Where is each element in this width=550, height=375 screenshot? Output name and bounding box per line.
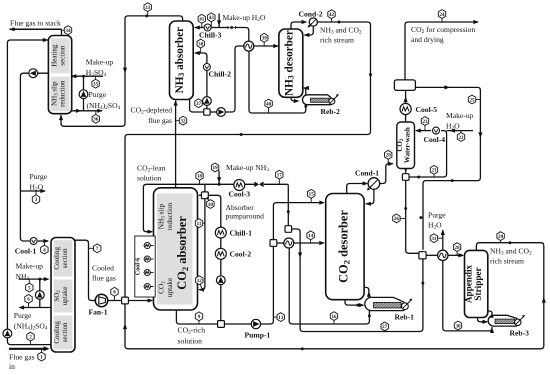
wire drum side stream	[415, 87, 480, 249]
svg-text:32: 32	[180, 119, 186, 125]
wire desorber overhead	[291, 22, 305, 29]
pump Pump-1	[251, 319, 260, 328]
svg-text:rich stream: rich stream	[490, 256, 524, 265]
wire HX3 bottom to Reb-3	[443, 261, 492, 331]
svg-text:reduction: reduction	[59, 80, 67, 107]
svg-text:36: 36	[93, 117, 99, 123]
wire desorber overhead long line	[125, 22, 371, 297]
svg-text:section: section	[59, 45, 67, 65]
wire H2SO4 pump riser	[83, 76, 85, 111]
wire pumparound line y=112	[210, 111, 216, 113]
svg-text:Cooling: Cooling	[53, 321, 61, 344]
chiller Chill-3	[204, 24, 211, 31]
reboiler Reb-2	[303, 95, 332, 105]
arrowhead H2SO4 into column	[71, 74, 77, 78]
svg-text:40: 40	[266, 101, 272, 107]
wire cool2-pump	[220, 259, 222, 276]
wire purge ammonium sulfate bottom	[20, 307, 52, 309]
arrowhead flue gas into column	[44, 346, 50, 351]
wire square to HX3	[426, 254, 437, 256]
node stream 12	[199, 280, 201, 288]
svg-text:uptake: uptake	[165, 278, 174, 297]
svg-text:16: 16	[331, 314, 337, 320]
svg-text:Chill-2: Chill-2	[209, 70, 232, 79]
svg-text:28: 28	[455, 245, 461, 251]
svg-text:Fan-1: Fan-1	[89, 308, 108, 317]
arrowhead down leg into absorber	[198, 288, 204, 292]
node stream 5	[28, 279, 30, 288]
pump H2SO4 recirculation	[79, 90, 88, 99]
wire chill3 line segment2	[212, 27, 228, 29]
exchanger lean/rich HX CO2 loop	[284, 238, 294, 248]
svg-text:9: 9	[198, 314, 201, 320]
wire make-up NH3 mid drop	[218, 171, 220, 184]
svg-text:Reb-1: Reb-1	[395, 313, 415, 322]
svg-text:19: 19	[213, 165, 219, 171]
arrowhead up into Reb-3	[490, 327, 494, 333]
node stream 17	[278, 175, 280, 185]
svg-text:14: 14	[308, 233, 314, 239]
wire Cond-1 vapor to water wash	[380, 164, 393, 184]
svg-text:30: 30	[455, 323, 461, 329]
svg-text:27: 27	[382, 324, 388, 330]
exchanger Cool-6 unit 4	[144, 283, 150, 289]
exchanger Cool-6 unit 3	[144, 269, 150, 275]
chiller Chill-1	[215, 227, 226, 238]
svg-text:section: section	[61, 322, 69, 342]
svg-text:13: 13	[278, 315, 284, 321]
node stream 15	[310, 194, 312, 203]
svg-text:Cool-1: Cool-1	[15, 247, 37, 256]
svg-text:Cond-2: Cond-2	[299, 9, 323, 18]
wire lean rail to bottom rail	[125, 246, 544, 349]
svg-text:33: 33	[145, 5, 151, 11]
svg-text:CO2 desorber: CO2 desorber	[336, 210, 351, 283]
column appendix stripper	[465, 250, 488, 317]
wire square to absorber	[128, 300, 152, 302]
svg-text:NH3 desorber: NH3 desorber	[284, 30, 296, 96]
wire HX1 top to chill3 line	[236, 28, 249, 42]
svg-text:Chill-1: Chill-1	[230, 228, 253, 237]
wire HX2 top riser	[287, 187, 289, 225]
node stream 4	[43, 241, 45, 250]
arrowhead Reb-3 vapor	[490, 313, 494, 318]
wire CO2-depleted flue gas	[175, 101, 177, 188]
svg-text:Make-up H2O: Make-up H2O	[223, 13, 266, 23]
wire stripper bottoms to Reb-3	[478, 318, 488, 322]
arrowhead down on rail x=125	[123, 68, 127, 74]
svg-text:43: 43	[209, 15, 215, 21]
wire stripper overhead	[476, 243, 543, 251]
wire make-up H2O right feed	[447, 130, 473, 132]
arrowhead stack left	[9, 27, 15, 31]
wire desorber overhead to Cond-1	[347, 184, 367, 194]
arrowhead make-up H2O down	[217, 20, 221, 26]
arrowhead bypass into desorber	[319, 201, 325, 205]
junction stripper bottoms	[482, 320, 485, 323]
svg-text:Make-up: Make-up	[16, 261, 44, 270]
wire Cool-1 to cooling column	[38, 240, 48, 242]
wire fan to square	[108, 300, 122, 302]
valve chill3 line b	[232, 26, 236, 29]
arrowhead fan gas into absorber	[148, 298, 154, 302]
wire cool-6 stub 3	[144, 272, 154, 274]
wire chill1-cool2	[220, 238, 222, 249]
junction square fan line	[122, 297, 129, 304]
node stream 41	[201, 19, 203, 28]
svg-text:in: in	[9, 362, 15, 370]
svg-text:(NH4)2SO4: (NH4)2SO4	[14, 322, 48, 332]
junction before stripper	[459, 254, 462, 257]
wire cool-6 stub 1	[144, 245, 154, 247]
node stream 43	[210, 17, 212, 27]
svg-text:39: 39	[262, 36, 268, 42]
pump NH3 absorber bottoms	[217, 108, 226, 117]
column NH3 absorber	[170, 21, 194, 100]
wire HX3 to stripper	[448, 254, 463, 256]
junction dot on long line	[240, 133, 243, 136]
wire pump to HX1 riser	[225, 46, 243, 112]
node stream 3	[35, 191, 37, 199]
arrowhead into Reb-1	[359, 303, 365, 307]
svg-text:Flue gas to stack: Flue gas to stack	[10, 19, 61, 28]
arrowhead on recirc mid	[450, 129, 456, 133]
condenser Cond-2	[309, 18, 317, 26]
wire Reb-3 vapor return	[487, 311, 493, 316]
node stream 23	[424, 121, 426, 131]
svg-text:42: 42	[329, 12, 335, 18]
node stream 27	[384, 326, 386, 331]
svg-text:NH3 and CO2: NH3 and CO2	[320, 26, 362, 36]
node stream 39	[263, 38, 265, 46]
cooler Cool-1	[30, 238, 37, 245]
node stream 1	[41, 350, 43, 357]
junction on HX2 riser	[287, 210, 290, 213]
node stream 2	[30, 337, 32, 345]
arrowhead lean into absorber left	[148, 230, 154, 234]
wire chill3 line segment valve	[230, 27, 233, 29]
fan Fan-1	[95, 294, 107, 306]
wire wash bottoms to appendix	[406, 180, 421, 254]
wire HX2 right to desorber	[294, 242, 324, 244]
wire Cond-1 reflux	[366, 189, 374, 203]
wire pump1 discharge riser	[261, 246, 274, 324]
wire pump-square	[220, 285, 222, 321]
svg-text:NH3 and CO2: NH3 and CO2	[490, 246, 532, 256]
svg-text:Heating: Heating	[50, 44, 58, 67]
svg-text:3: 3	[35, 197, 38, 203]
arrowhead make-up NH3 into column	[44, 277, 50, 281]
arrowhead reflux into desorber	[304, 33, 310, 37]
pump bottom recycle	[3, 329, 12, 338]
svg-text:Make-up: Make-up	[86, 57, 114, 66]
svg-text:Appendix: Appendix	[463, 264, 473, 303]
node stream 16	[333, 316, 335, 324]
node stream 40	[268, 104, 270, 114]
junction square appendix feed	[419, 252, 426, 259]
wire flue gas in	[9, 348, 48, 350]
wire make-up NH3 feed	[19, 278, 49, 280]
arrowhead into Reb-2	[294, 99, 300, 103]
junction on y=180.6 line	[451, 179, 454, 182]
valve chill3 line a	[227, 26, 231, 29]
wire purge H2O riser	[442, 230, 444, 250]
svg-text:Stripper: Stripper	[473, 267, 483, 300]
svg-text:flue gas: flue gas	[92, 273, 116, 282]
svg-text:2: 2	[29, 334, 32, 340]
junction square HX2 top	[285, 226, 292, 233]
vessel flash drum	[394, 80, 415, 91]
arrowhead vapor into water wash	[388, 162, 394, 166]
wire rich line square to pump1	[224, 323, 251, 325]
cooler Cool-2	[215, 248, 226, 259]
junction make-up NH3 join	[218, 183, 221, 186]
section heating	[51, 38, 70, 73]
wire absorber overhead rail x=125	[61, 16, 183, 126]
cooler Cool-5	[400, 103, 411, 114]
node stream 13	[273, 316, 280, 318]
junction dot on overhead vertical	[369, 73, 372, 76]
section cooling bottom	[54, 316, 73, 350]
wire HX2 bottom riser	[288, 248, 290, 321]
node stream 8	[114, 292, 116, 301]
junction Reb-2 bottoms	[304, 105, 307, 108]
wire make-up H2SO4 feed	[72, 75, 103, 77]
wire HX2 left port	[277, 242, 284, 244]
arrowhead make-up NH3 mid	[217, 177, 221, 183]
arrowhead Cond-1 reflux into desorber	[365, 202, 371, 206]
node stream 37	[199, 102, 207, 104]
svg-text:4: 4	[43, 247, 46, 253]
wire left outer rail x=7.4	[7, 40, 51, 345]
svg-text:25: 25	[469, 97, 475, 103]
wire wash recirc to Cool-4	[409, 131, 447, 177]
svg-text:CO2-rich: CO2-rich	[178, 325, 206, 335]
arrowhead chill3 into absorber	[194, 25, 200, 29]
svg-text:12: 12	[197, 278, 203, 284]
node stream 11	[199, 222, 205, 224]
arrowhead purge H2O	[40, 189, 46, 193]
wire cooled flue gas to fan	[75, 240, 95, 300]
reboiler Reb-1	[365, 297, 405, 310]
junction stream 33 stub	[145, 14, 148, 17]
svg-text:CO2 for compression: CO2 for compression	[411, 25, 475, 35]
junction hexagon 21 line	[417, 176, 420, 179]
svg-text:Absorber: Absorber	[226, 203, 255, 212]
wire drum overhead to compression	[405, 22, 478, 80]
svg-text:18: 18	[197, 174, 203, 180]
svg-text:and drying: and drying	[411, 35, 444, 44]
wire pumparound top	[208, 195, 221, 227]
column CO2 water-wash	[397, 122, 415, 169]
svg-text:15: 15	[309, 192, 315, 198]
junction on x=423 drop	[419, 216, 422, 219]
arrowhead purge top end	[97, 109, 103, 113]
arrowhead into absorber right top	[198, 193, 204, 197]
svg-text:pumparound: pumparound	[226, 212, 265, 221]
wire chill3 into absorber	[195, 27, 204, 29]
junction Reb-1 feed	[356, 304, 359, 307]
wire lean return into absorber left	[143, 184, 287, 231]
wire water wash to drum	[405, 91, 407, 122]
column flue-gas heater (heating/slip reduction)	[48, 36, 71, 114]
svg-text:solution: solution	[137, 173, 162, 182]
wire Cool-4 to wash top	[416, 130, 431, 132]
svg-text:Cool-5: Cool-5	[416, 105, 438, 114]
svg-text:(NH4)2SO4: (NH4)2SO4	[87, 101, 121, 111]
node stream 10	[207, 197, 210, 204]
arrowhead up on lean rail	[123, 324, 127, 330]
column NH3 desorber	[279, 29, 303, 97]
arrowhead into wash column top	[415, 129, 421, 133]
svg-text:uptake: uptake	[61, 287, 69, 306]
node stream 34	[62, 29, 69, 31]
svg-text:Cooled: Cooled	[92, 264, 114, 273]
exchanger bank Cool-6 box	[135, 236, 155, 297]
svg-text:H2SO4: H2SO4	[86, 68, 107, 78]
svg-text:Flue gas: Flue gas	[9, 352, 35, 361]
arrowhead Reb-1 vapor up	[367, 291, 371, 297]
cooler Cool-4	[433, 127, 440, 134]
junction on bottom rail	[301, 347, 304, 350]
arrowhead CO2 product	[473, 20, 479, 24]
junction hexagon 26 line	[404, 207, 407, 210]
svg-text:6: 6	[27, 297, 30, 303]
arrowhead rich into desorber	[319, 241, 325, 245]
svg-text:reduction: reduction	[165, 202, 174, 230]
svg-text:11: 11	[197, 221, 202, 227]
svg-text:17: 17	[277, 173, 283, 179]
svg-text:1: 1	[40, 354, 43, 360]
junction square rich takeoff	[218, 321, 225, 328]
wire Reb-2 vapor return	[304, 88, 306, 95]
svg-text:Reb-3: Reb-3	[510, 328, 530, 337]
junction square NH3 pumparound	[204, 109, 210, 115]
condenser Cond-1	[368, 178, 380, 190]
wire Cond-2 reflux	[304, 27, 313, 35]
chiller Chill-2	[203, 64, 210, 71]
wire purge H2O branch	[20, 190, 45, 192]
wire desorber lean return y=113	[249, 51, 306, 113]
node stream 25	[472, 99, 480, 101]
arrowhead into Cond-2	[302, 20, 308, 24]
svg-text:10: 10	[208, 202, 214, 208]
exchanger lean/rich HX desorber feed	[244, 41, 254, 51]
reboiler Reb-3	[488, 315, 518, 326]
svg-text:Cool-3: Cool-3	[229, 190, 251, 199]
wire purge ammonium sulfate top	[72, 110, 102, 112]
wire stack horizontal	[10, 28, 62, 30]
node stream 28	[456, 247, 458, 255]
wire desorber bottoms to Reb-2	[291, 97, 298, 101]
junction square distributor	[202, 192, 209, 199]
junction H2SO4 pump riser	[82, 75, 85, 78]
exchanger Cool-6 unit 2	[144, 256, 150, 262]
node stream 35	[95, 76, 97, 84]
arrowhead down on appendix feed	[298, 252, 302, 258]
column CO2 absorber	[154, 188, 198, 310]
node stream 38	[200, 44, 202, 53]
arrowhead up on right rail	[542, 297, 546, 303]
node stream 33	[147, 7, 149, 16]
svg-text:Cool-4: Cool-4	[424, 135, 446, 144]
wire Reb-1 vapor return	[364, 287, 369, 297]
column CO2 desorber	[326, 194, 364, 300]
node stream 18	[199, 176, 201, 185]
wire HX1 to desorber feed	[254, 45, 279, 47]
arrowhead purge top mid	[76, 109, 82, 113]
wire rich bypass to upper feed	[273, 203, 323, 240]
junction square HX2 left	[270, 240, 277, 247]
svg-text:NH3 absorber: NH3 absorber	[174, 27, 186, 93]
junction Reb-1 liquid	[368, 314, 371, 317]
svg-text:23: 23	[422, 119, 428, 125]
exchanger appendix stripper HX	[438, 250, 448, 260]
svg-text:Purge: Purge	[428, 210, 446, 219]
svg-text:Water-wash: Water-wash	[404, 127, 412, 163]
node stream 31	[434, 237, 443, 239]
junction stripper overhead	[508, 241, 511, 244]
svg-text:CO2-depleted: CO2-depleted	[131, 106, 173, 116]
wire make-up H2O drop	[218, 14, 220, 28]
wire cool-6 stub 2	[144, 258, 154, 260]
node stream 20	[387, 155, 389, 164]
wire square into absorber	[199, 194, 202, 196]
arrowhead into drum	[404, 97, 408, 103]
node stream 29	[500, 236, 502, 243]
svg-text:Purge: Purge	[89, 90, 107, 99]
wire lean split to square	[204, 184, 206, 192]
svg-text:rich stream: rich stream	[320, 35, 354, 44]
node stream 9	[198, 316, 200, 324]
pump make-up NH3	[35, 291, 44, 300]
svg-text:Cool-6: Cool-6	[134, 258, 141, 276]
arrowhead into NH3 absorber bottom	[174, 100, 178, 106]
exchanger Cool-6 unit 1	[144, 242, 150, 248]
node stream 42	[331, 14, 333, 22]
svg-text:flue gas: flue gas	[148, 116, 172, 125]
node stream 32	[176, 120, 183, 122]
wire desorber bottoms to Reb-1	[345, 300, 363, 305]
wire absorber pumparound riser	[195, 53, 207, 109]
pump slip reduction outlet	[29, 69, 38, 78]
svg-text:21: 21	[431, 168, 437, 174]
junction make-up NH3 pump	[38, 278, 41, 281]
arrowhead purge bottom left	[19, 305, 25, 309]
svg-text:Pump-1: Pump-1	[245, 331, 271, 340]
wire lean to appendix stripper	[292, 229, 423, 332]
arrowhead into heating section	[43, 38, 49, 42]
svg-text:7: 7	[96, 246, 99, 252]
svg-text:Cooling: Cooling	[53, 247, 61, 270]
svg-text:41: 41	[199, 17, 205, 23]
pump NH3 absorber pumparound	[203, 97, 212, 106]
svg-text:CO2 absorber: CO2 absorber	[175, 216, 190, 290]
svg-text:35: 35	[93, 82, 99, 88]
svg-text:5: 5	[28, 285, 31, 291]
svg-text:solution: solution	[178, 336, 203, 345]
arrowhead into stripper	[458, 253, 464, 257]
svg-text:38: 38	[198, 41, 204, 47]
node stream 19	[215, 167, 219, 171]
svg-text:31: 31	[431, 236, 437, 242]
wire slip-reduction outlet rail x=20.4	[20, 73, 48, 241]
svg-text:Cond-1: Cond-1	[355, 168, 379, 177]
junction square wash bottoms	[402, 174, 409, 181]
wire lean corner to HX2	[287, 184, 290, 187]
svg-text:CO2-lean: CO2-lean	[137, 163, 166, 173]
arrowhead into slip column bottom	[59, 115, 63, 121]
